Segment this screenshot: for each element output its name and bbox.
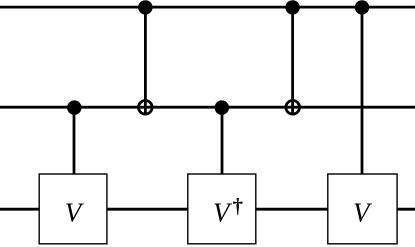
svg-text:†: † xyxy=(233,194,244,218)
